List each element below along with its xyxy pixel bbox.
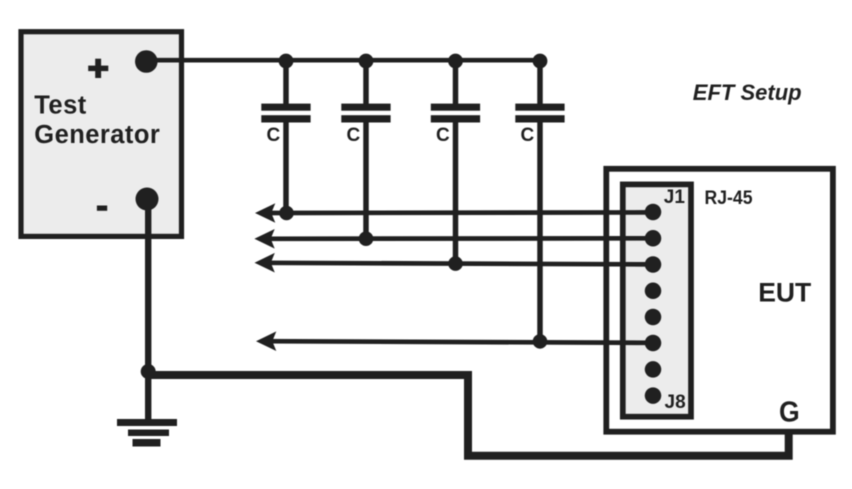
arrowhead line 3 <box>255 253 275 273</box>
arrowhead line 2 <box>254 229 274 249</box>
pin J1 <box>645 204 662 221</box>
pin J6 <box>645 335 662 352</box>
ground wire run <box>148 375 789 456</box>
wire top bus <box>146 58 540 63</box>
capacitor C3 <box>431 104 480 123</box>
wire line 1 to pin J1 <box>262 210 653 215</box>
wire C2 upper stem <box>363 61 369 104</box>
plus sign <box>88 59 108 78</box>
wire line 3 to pin J3 <box>261 263 653 265</box>
svg-text:C: C <box>347 125 361 146</box>
pin J4 <box>645 283 662 300</box>
node top C4 <box>533 54 548 69</box>
svg-text:C: C <box>436 125 450 146</box>
junction C1 line1 <box>279 206 294 221</box>
svg-text:J1: J1 <box>664 187 686 208</box>
svg-text:C: C <box>521 125 535 146</box>
pin J3 <box>645 256 662 273</box>
wire line 2 to pin J2 <box>261 236 653 241</box>
wire C4 upper stem <box>537 61 543 104</box>
plus terminal <box>135 50 158 73</box>
arrowhead line 1 <box>255 203 275 223</box>
svg-text:RJ-45: RJ-45 <box>705 188 753 209</box>
svg-text:EFT Setup: EFT Setup <box>693 80 802 105</box>
svg-text:Test: Test <box>34 91 86 119</box>
svg-text:Generator: Generator <box>34 121 160 149</box>
wire C3 upper stem <box>453 61 459 104</box>
minus sign <box>97 206 107 211</box>
capacitor C2 <box>341 104 390 123</box>
test generator box <box>21 32 182 237</box>
node top C2 <box>359 54 374 69</box>
wire C4 lower stem <box>537 122 543 341</box>
arrowhead line 4 <box>256 331 276 351</box>
junction C2 line2 <box>359 231 374 246</box>
wire C3 lower stem <box>453 122 459 264</box>
junction C4 line4 <box>533 334 548 349</box>
svg-text:G: G <box>779 397 800 429</box>
capacitor C4 <box>515 104 564 123</box>
wire C1 upper stem <box>283 61 289 104</box>
ground node <box>141 364 156 379</box>
pin J5 <box>645 309 662 326</box>
wire line 4 to pin J6 <box>263 341 653 343</box>
wire C1 lower stem <box>283 122 289 213</box>
node top C1 <box>279 54 294 69</box>
wire C2 lower stem <box>363 122 369 239</box>
wire minus to ground node <box>145 199 151 375</box>
svg-text:J8: J8 <box>665 392 686 413</box>
junction C3 line3 <box>448 256 463 271</box>
minus terminal <box>136 188 159 211</box>
EUT box <box>606 169 833 432</box>
svg-text:C: C <box>267 125 281 146</box>
pin J2 <box>645 230 662 247</box>
svg-text:EUT: EUT <box>758 277 811 307</box>
capacitor C1 <box>261 104 310 123</box>
pin J8 <box>645 387 662 404</box>
pin J7 <box>645 361 662 378</box>
RJ-45 connector box <box>623 184 691 416</box>
node top C3 <box>448 54 463 69</box>
ground symbol <box>117 375 177 447</box>
